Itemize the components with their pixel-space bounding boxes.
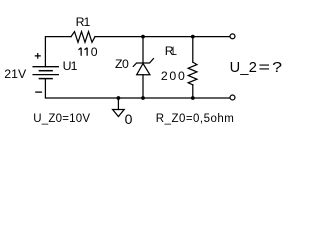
zener diode Z0 triangle <box>137 64 150 75</box>
junction dot RL top <box>191 35 195 39</box>
battery U1 plate long lower <box>33 74 58 76</box>
battery U1 plate long top <box>33 66 58 68</box>
label 200 <box>161 70 187 82</box>
junction dot RL bottom <box>191 96 195 100</box>
ground triangle node 0 <box>113 110 125 117</box>
label R_Z0=0,5ohm <box>156 114 234 126</box>
battery U1 plate short bottom <box>39 78 52 80</box>
zener diode Z0 anode wire <box>142 75 144 98</box>
label U1 <box>63 60 77 72</box>
battery minus sign <box>35 91 42 93</box>
junction dot zener bottom <box>141 96 145 100</box>
label U_Z0=10V <box>33 114 90 126</box>
terminal circle bottom <box>230 95 235 100</box>
label Z0 <box>115 58 128 70</box>
battery U1 plate short upper <box>39 70 52 72</box>
resistor RL bottom wire <box>192 85 194 98</box>
wire top left segment <box>45 37 71 67</box>
terminal circle top <box>230 34 235 39</box>
ground stub wire <box>117 98 119 110</box>
resistor RL zigzag <box>188 62 197 85</box>
zener diode Z0 cathode bar with bent ends <box>133 59 153 67</box>
label RL letter L <box>172 45 177 57</box>
label RL <box>165 45 174 57</box>
label U_2 = ? <box>230 61 282 76</box>
label 21V <box>4 68 26 80</box>
label node 0 <box>125 112 133 126</box>
resistor R1 <box>71 32 95 43</box>
zener diode Z0 cathode wire <box>142 37 144 63</box>
wire top right segment <box>95 36 230 38</box>
label 110 <box>78 46 98 58</box>
wire bottom segment <box>45 79 229 98</box>
label R1 <box>76 16 90 28</box>
battery plus sign <box>35 53 41 59</box>
junction dot zener top <box>141 35 145 39</box>
resistor RL top wire <box>192 37 194 63</box>
junction dot ground <box>117 96 121 100</box>
